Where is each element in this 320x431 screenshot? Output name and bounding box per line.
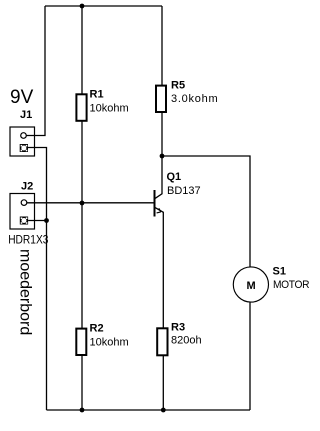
connector J1 xyxy=(10,127,35,156)
node junction bottom R3 xyxy=(161,408,166,413)
resistor R2 xyxy=(76,329,86,355)
svg-text:moederbord: moederbord xyxy=(16,249,33,335)
wire motor to bottom xyxy=(249,302,251,410)
wire J1 pin2 down left rail xyxy=(28,148,47,411)
resistor R5 xyxy=(156,86,166,112)
wire node to motor xyxy=(162,156,250,267)
svg-text:R1: R1 xyxy=(90,89,104,101)
connector J2 xyxy=(10,194,35,230)
node junction base divider xyxy=(80,201,85,206)
transistor Q1 xyxy=(155,190,161,217)
svg-text:MOTOR: MOTOR xyxy=(273,279,310,291)
svg-text:10kohm: 10kohm xyxy=(90,103,129,115)
svg-text:HDR1X3: HDR1X3 xyxy=(8,234,48,247)
svg-text:R2: R2 xyxy=(90,323,104,335)
motor S1 xyxy=(233,267,268,302)
wire left rail to J1 pin1 xyxy=(26,6,45,136)
node junction bottom R2 xyxy=(80,408,85,413)
svg-text:R3: R3 xyxy=(171,322,185,334)
svg-text:Q1: Q1 xyxy=(167,171,182,183)
wire R1 column xyxy=(81,6,83,410)
svg-text:S1: S1 xyxy=(273,266,286,278)
node junction collector xyxy=(160,154,165,159)
node junction J2 pin2 xyxy=(44,218,49,223)
resistor R1 xyxy=(76,94,86,121)
wire bottom rail xyxy=(47,409,251,411)
svg-text:10kohm: 10kohm xyxy=(90,337,129,349)
node junction top xyxy=(80,4,85,9)
svg-text:3.0kohm: 3.0kohm xyxy=(171,93,218,105)
svg-text:820oh: 820oh xyxy=(171,335,202,347)
wire J2 pin2 tie xyxy=(28,220,46,222)
svg-text:R5: R5 xyxy=(171,80,185,92)
svg-text:M: M xyxy=(247,280,256,292)
svg-text:9V: 9V xyxy=(10,87,34,108)
resistor R3 xyxy=(157,328,167,355)
svg-text:J2: J2 xyxy=(21,181,33,193)
svg-text:BD137: BD137 xyxy=(167,185,201,197)
svg-text:J1: J1 xyxy=(20,109,32,121)
wire R5 column / collector xyxy=(155,6,162,199)
wire J2 pin1 to base xyxy=(27,202,154,204)
wire top rail xyxy=(45,5,162,7)
wire emitter column xyxy=(155,207,163,410)
